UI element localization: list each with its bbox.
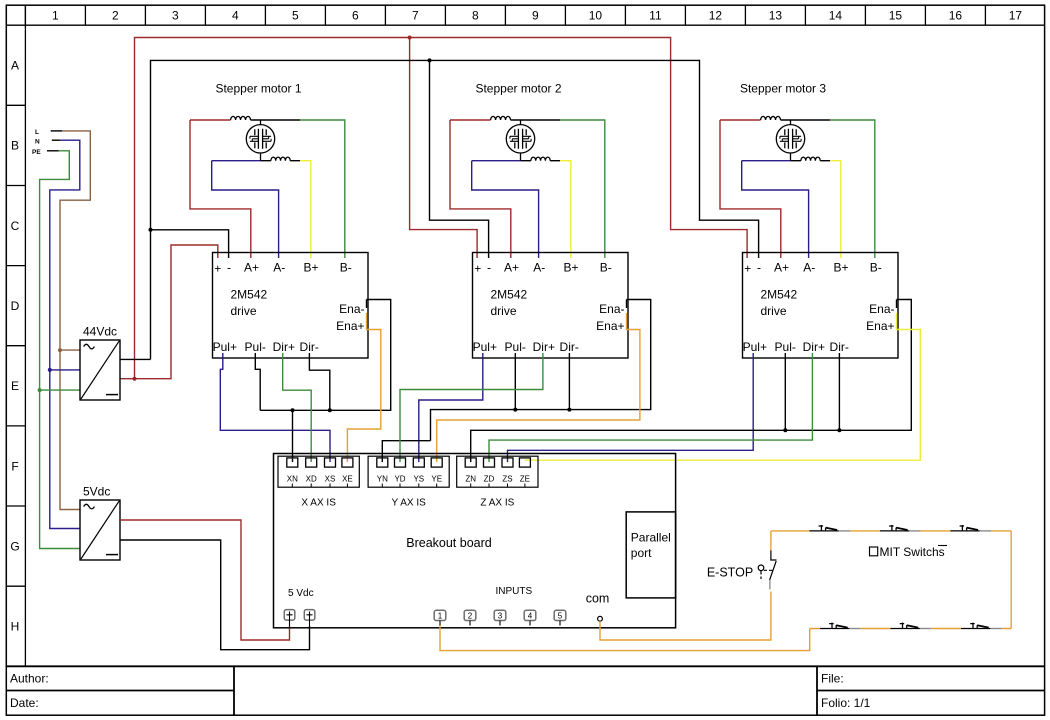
coil motor2 phase A bbox=[491, 116, 511, 120]
svg-text:Y AX IS: Y AX IS bbox=[392, 498, 427, 509]
svg-text:Dir+: Dir+ bbox=[273, 340, 295, 354]
svg-text:5: 5 bbox=[558, 612, 563, 621]
svg-text:ZD: ZD bbox=[484, 475, 495, 484]
svg-text:Date:: Date: bbox=[10, 696, 39, 710]
node drive1 bus / Dir- bbox=[328, 408, 332, 412]
svg-text:C: C bbox=[11, 219, 20, 233]
wire motor1 bottom 2 (black) bbox=[290, 160, 300, 162]
svg-text:INPUTS: INPUTS bbox=[496, 586, 533, 597]
wire motor1 B+ (yellow) to drive bbox=[300, 161, 311, 258]
wire L (brown) to supplies bbox=[60, 131, 90, 510]
svg-text:Pul-: Pul- bbox=[245, 340, 266, 354]
wire drive1 Pul- to bus bbox=[255, 353, 260, 410]
svg-text:Breakout board: Breakout board bbox=[406, 536, 492, 550]
svg-text:D: D bbox=[11, 299, 20, 313]
limit switch S2 bbox=[880, 525, 909, 531]
input terminal 2 bbox=[464, 610, 476, 620]
wire 44V+ drop to drive 2 + bbox=[410, 38, 478, 259]
pin stub PE bbox=[47, 150, 59, 152]
input terminal 5 bbox=[554, 610, 566, 620]
svg-text:H: H bbox=[11, 620, 20, 634]
svg-text:Pul-: Pul- bbox=[505, 340, 526, 354]
2M542 drive U3 bbox=[743, 253, 899, 359]
svg-text:-: - bbox=[487, 261, 491, 275]
pin stub Ena- drive 1 bbox=[366, 300, 368, 309]
power supply 44Vdc bbox=[80, 340, 120, 400]
svg-text:Ena+: Ena+ bbox=[596, 319, 624, 333]
svg-text:port: port bbox=[631, 546, 652, 560]
wire drive2 minus bus / Ena- bbox=[431, 300, 651, 441]
wire PE (green) to supplies bbox=[40, 151, 80, 549]
wire drive1 Pul+ to XS bbox=[220, 353, 330, 462]
svg-text:4: 4 bbox=[528, 612, 533, 621]
svg-text:A+: A+ bbox=[774, 261, 789, 275]
svg-text:Author:: Author: bbox=[10, 672, 49, 686]
wire drive3 minus bus / Ena- to ZN bbox=[471, 300, 912, 463]
wire 44V- drop to drive 2 - bbox=[430, 60, 489, 258]
svg-text:Dir-: Dir- bbox=[830, 340, 849, 354]
node drive2 bus / Dir- bbox=[567, 408, 571, 412]
wire L tap to 44Vdc bbox=[60, 349, 80, 351]
wire motor3 B+ (yellow) to drive bbox=[830, 161, 841, 258]
node 44V- / drive1 tap bbox=[149, 228, 153, 232]
terminal YN bbox=[377, 458, 388, 467]
svg-text:Ena-: Ena- bbox=[869, 302, 894, 316]
wire N tap to 44Vdc bbox=[50, 369, 80, 371]
svg-text:7: 7 bbox=[412, 8, 419, 22]
svg-text:2: 2 bbox=[468, 612, 473, 621]
svg-text:B+: B+ bbox=[563, 261, 578, 275]
node com bbox=[598, 616, 603, 621]
input terminal 3 bbox=[494, 610, 506, 620]
node drive3 bus / Dir- bbox=[837, 428, 841, 432]
svg-text:XN: XN bbox=[287, 475, 298, 484]
node drive3 bus / Pul- bbox=[783, 428, 787, 432]
terminal YS bbox=[413, 458, 424, 467]
wire motor2 B- (green) to drive bbox=[560, 120, 605, 258]
terminal ZD bbox=[484, 458, 495, 467]
svg-text:Parallel: Parallel bbox=[631, 531, 671, 545]
input terminal 1 bbox=[434, 610, 446, 620]
terminal group Y AXIS bbox=[368, 456, 449, 487]
terminal XD bbox=[306, 458, 317, 467]
svg-text:YD: YD bbox=[394, 475, 405, 484]
2M542 drive U2 bbox=[473, 253, 629, 359]
power supply 5Vdc bbox=[80, 500, 120, 560]
svg-text:YE: YE bbox=[431, 475, 442, 484]
node L / 44Vdc tap bbox=[58, 348, 62, 352]
wire com to E-STOP bbox=[600, 592, 771, 641]
wire drive3 Pul+ to ZS bbox=[508, 353, 754, 462]
wire N (blue) to supplies bbox=[50, 140, 80, 528]
svg-text:A: A bbox=[11, 59, 19, 73]
svg-text:2: 2 bbox=[112, 8, 119, 22]
node 44V- bus / drive2 tap bbox=[428, 58, 432, 62]
wire motor2 A- to drive bbox=[472, 161, 539, 258]
svg-text:5Vdc: 5Vdc bbox=[83, 485, 110, 499]
svg-text:Stepper motor 3: Stepper motor 3 bbox=[740, 82, 826, 96]
breakout board bbox=[274, 454, 676, 628]
svg-text:YS: YS bbox=[413, 475, 424, 484]
wire motor3 B- (green) to drive bbox=[830, 120, 875, 258]
svg-text:17: 17 bbox=[1009, 8, 1023, 22]
wire motor3 A+ to drive bbox=[720, 120, 781, 258]
wire motor1 bottom (black) bbox=[261, 160, 271, 162]
wire 5V+ to breakout bbox=[120, 520, 290, 640]
svg-text:5 Vdc: 5 Vdc bbox=[288, 588, 314, 599]
wire drive1 Dir- to bus bbox=[309, 353, 329, 410]
svg-text:+: + bbox=[744, 262, 751, 276]
wire PE tap to 44Vdc bbox=[40, 389, 80, 391]
wire drive2 Pul+ to YS bbox=[419, 353, 483, 462]
pin stub Ena- drive 2 bbox=[626, 300, 628, 309]
svg-text:XS: XS bbox=[325, 475, 336, 484]
svg-text:B-: B- bbox=[600, 261, 612, 275]
svg-text:1: 1 bbox=[52, 8, 59, 22]
svg-text:PE: PE bbox=[32, 149, 41, 156]
node drive2 bus / Pul- bbox=[513, 408, 517, 412]
svg-text:MIT Switchs: MIT Switchs bbox=[880, 545, 945, 559]
coil motor3 phase B bbox=[801, 157, 820, 161]
svg-text:Pul+: Pul+ bbox=[743, 340, 767, 354]
wire drive2 Dir- to bus bbox=[568, 353, 570, 410]
svg-text:XE: XE bbox=[342, 475, 353, 484]
svg-text:drive: drive bbox=[491, 304, 517, 318]
wire motor2 A+ top (red) bbox=[450, 119, 491, 121]
svg-text:com: com bbox=[586, 592, 610, 606]
svg-text:15: 15 bbox=[889, 8, 903, 22]
svg-text:drive: drive bbox=[761, 304, 787, 318]
node 44V+ at supply bbox=[133, 377, 137, 381]
svg-text:Z AX IS: Z AX IS bbox=[480, 498, 514, 509]
pin stub N bbox=[52, 139, 60, 141]
wire motor3 A+ top (red) bbox=[720, 119, 761, 121]
wire drive1 Dir+ to XD bbox=[283, 353, 312, 462]
wire E-STOP top bbox=[770, 531, 772, 550]
svg-text:3: 3 bbox=[172, 8, 179, 22]
wire 44V- top bus to drive 3 - bbox=[151, 60, 759, 359]
terminal XS bbox=[325, 458, 336, 467]
svg-text:44Vdc: 44Vdc bbox=[83, 325, 117, 339]
svg-text:B+: B+ bbox=[303, 261, 318, 275]
svg-text:Stepper motor 1: Stepper motor 1 bbox=[215, 82, 301, 96]
svg-text:9: 9 bbox=[532, 8, 539, 22]
wire motor2 A+ to drive bbox=[450, 120, 511, 258]
terminal XE bbox=[342, 458, 353, 467]
wire motor3 A- to drive bbox=[742, 161, 809, 258]
svg-text:A-: A- bbox=[803, 261, 815, 275]
wire drive3 Dir+ to ZD bbox=[489, 353, 812, 462]
svg-text:XD: XD bbox=[306, 475, 317, 484]
terminal ZE bbox=[519, 458, 530, 467]
svg-text:8: 8 bbox=[472, 8, 479, 22]
wire drive2 Ena+ to YE bbox=[437, 313, 640, 462]
coil motor2 phase B bbox=[531, 157, 550, 161]
wire motor3 top (black) bbox=[781, 119, 831, 121]
limit switch S4 bbox=[820, 623, 849, 629]
svg-text:Pul+: Pul+ bbox=[473, 340, 497, 354]
node N / 44Vdc tap bbox=[48, 368, 52, 372]
terminal 5V+ bbox=[284, 610, 295, 621]
wire 44V+ to drive 1 + bbox=[120, 245, 218, 379]
wire 44V+ top bus to drive 3 + bbox=[135, 38, 748, 379]
svg-text:2M542: 2M542 bbox=[231, 288, 268, 302]
svg-text:Dir+: Dir+ bbox=[803, 340, 825, 354]
wire motor1 A- to drive bbox=[212, 161, 279, 258]
limit switch S5 bbox=[891, 623, 920, 629]
wire input1 to limit chain bbox=[440, 626, 810, 651]
wire motor2 B+ (yellow) to drive bbox=[560, 161, 571, 258]
coil motor1 phase B bbox=[271, 157, 290, 161]
wire 44V- to drive 1 - bbox=[151, 230, 229, 258]
terminal XN bbox=[287, 458, 298, 467]
terminal group X AXIS bbox=[278, 456, 359, 487]
svg-text:12: 12 bbox=[709, 8, 723, 22]
limit switch S3 bbox=[950, 525, 979, 531]
2M542 drive U1 bbox=[213, 253, 369, 359]
svg-text:E-STOP: E-STOP bbox=[707, 566, 753, 580]
svg-text:B: B bbox=[11, 139, 19, 153]
motor M3 (stepper) bbox=[776, 120, 804, 161]
svg-text:+: + bbox=[474, 262, 481, 276]
svg-text:Ena-: Ena- bbox=[339, 302, 364, 316]
svg-text:5: 5 bbox=[292, 8, 299, 22]
svg-text:2M542: 2M542 bbox=[491, 288, 528, 302]
svg-text:14: 14 bbox=[829, 8, 843, 22]
parallel port bbox=[626, 512, 675, 598]
svg-text:X AX IS: X AX IS bbox=[301, 498, 336, 509]
svg-text:16: 16 bbox=[949, 8, 963, 22]
wire motor3 A- bottom (blue) bbox=[742, 160, 791, 162]
node PE / 44Vdc tap bbox=[38, 388, 42, 392]
svg-text:B+: B+ bbox=[833, 261, 848, 275]
svg-text:3: 3 bbox=[498, 612, 503, 621]
svg-text:ZS: ZS bbox=[502, 475, 512, 484]
svg-text:Folio: 1/1: Folio: 1/1 bbox=[821, 696, 871, 710]
wire motor3 bottom 2 (black) bbox=[820, 160, 830, 162]
wire drive2 Pul- to bus bbox=[514, 353, 516, 410]
svg-text:4: 4 bbox=[232, 8, 239, 22]
svg-text:A-: A- bbox=[533, 261, 545, 275]
svg-text:L: L bbox=[35, 129, 39, 136]
switch travel mark E-STOP bbox=[769, 580, 771, 590]
svg-text:Ena+: Ena+ bbox=[866, 319, 894, 333]
svg-text:2M542: 2M542 bbox=[761, 288, 798, 302]
svg-text:Ena-: Ena- bbox=[599, 302, 624, 316]
limit switch S1 bbox=[809, 525, 838, 531]
svg-text:Dir+: Dir+ bbox=[533, 340, 555, 354]
svg-text:Dir-: Dir- bbox=[300, 340, 319, 354]
wire motor2 A- bottom (blue) bbox=[472, 160, 521, 162]
wire drive3 Dir- to bus bbox=[838, 353, 840, 430]
svg-text:Dir-: Dir- bbox=[560, 340, 579, 354]
svg-text:11: 11 bbox=[649, 8, 662, 22]
svg-text:A-: A- bbox=[273, 261, 285, 275]
svg-text:B-: B- bbox=[340, 261, 352, 275]
svg-text:ZN: ZN bbox=[465, 475, 476, 484]
node drive1 bus / XN bbox=[291, 408, 295, 412]
wire motor2 bottom (black) bbox=[521, 160, 531, 162]
terminal ZN bbox=[465, 458, 476, 467]
input terminal 4 bbox=[524, 610, 536, 620]
wire motor1 B- (green) to drive bbox=[300, 120, 345, 258]
wire motor3 bottom (black) bbox=[791, 160, 801, 162]
limit switch S6 bbox=[961, 623, 990, 629]
svg-text:A+: A+ bbox=[504, 261, 519, 275]
terminal ZS bbox=[502, 458, 513, 467]
wire drive2 Dir+ to YD bbox=[400, 353, 543, 462]
svg-text:-: - bbox=[757, 261, 761, 275]
terminal group Z AXIS bbox=[457, 456, 538, 487]
label LIMIT Switchs bbox=[870, 547, 878, 556]
svg-text:-: - bbox=[227, 261, 231, 275]
svg-text:File:: File: bbox=[821, 672, 844, 686]
coil motor1 phase A bbox=[231, 116, 251, 120]
motor M1 (stepper) bbox=[246, 120, 274, 161]
wire drive1 Ena+ to XE bbox=[347, 313, 380, 462]
wire drive2 bus to YN bbox=[382, 441, 430, 462]
pin stub Ena- drive 3 bbox=[896, 300, 898, 309]
motor M2 (stepper) bbox=[506, 120, 534, 161]
svg-text:6: 6 bbox=[352, 8, 359, 22]
svg-text:Pul+: Pul+ bbox=[213, 340, 237, 354]
svg-text:E: E bbox=[11, 379, 19, 393]
switch E-STOP (NC pushbutton) bbox=[758, 550, 776, 580]
wire 5V- to breakout bbox=[120, 540, 310, 650]
coil motor3 phase A bbox=[761, 116, 781, 120]
wire limit chain top row bbox=[771, 530, 1011, 532]
wire motor2 bottom 2 (black) bbox=[550, 160, 560, 162]
svg-text:Ena+: Ena+ bbox=[336, 319, 364, 333]
pin stub L bbox=[51, 130, 63, 132]
svg-text:Stepper motor 2: Stepper motor 2 bbox=[475, 82, 561, 96]
svg-text:13: 13 bbox=[769, 8, 783, 22]
wire motor1 top (black) bbox=[251, 119, 301, 121]
svg-text:drive: drive bbox=[231, 304, 257, 318]
svg-text:A+: A+ bbox=[244, 261, 259, 275]
terminal YD bbox=[395, 458, 406, 467]
title block bbox=[6, 666, 1044, 715]
wire 44V- supply output bbox=[120, 358, 151, 360]
svg-text:YN: YN bbox=[377, 475, 388, 484]
wire drive1 minus bus / Ena- bbox=[260, 300, 391, 411]
terminal 5V- bbox=[304, 610, 315, 621]
wire drive1 bus to XN bbox=[292, 410, 294, 462]
svg-text:ZE: ZE bbox=[520, 475, 530, 484]
node 44V+ bus / drive2 tap bbox=[408, 36, 412, 40]
wire drive3 Ena+ to ZE (yellow) bbox=[525, 313, 920, 460]
wire motor1 A- bottom (blue) bbox=[212, 160, 261, 162]
svg-text:B-: B- bbox=[870, 261, 882, 275]
svg-text:10: 10 bbox=[589, 8, 603, 22]
svg-text:+: + bbox=[214, 262, 221, 276]
wire motor2 top (black) bbox=[511, 119, 561, 121]
wire limit chain right side bbox=[1010, 531, 1012, 629]
svg-text:1: 1 bbox=[438, 612, 443, 621]
svg-text:F: F bbox=[11, 459, 18, 473]
svg-text:G: G bbox=[10, 539, 19, 553]
wire limit chain bottom row bbox=[810, 628, 1012, 630]
terminal YE bbox=[431, 458, 442, 467]
svg-text:N: N bbox=[35, 138, 40, 145]
svg-text:Pul-: Pul- bbox=[775, 340, 796, 354]
wire drive3 Pul- to bus bbox=[784, 353, 786, 430]
wire motor1 A+ to drive bbox=[190, 120, 251, 258]
wire motor1 A+ top (red) bbox=[190, 119, 231, 121]
